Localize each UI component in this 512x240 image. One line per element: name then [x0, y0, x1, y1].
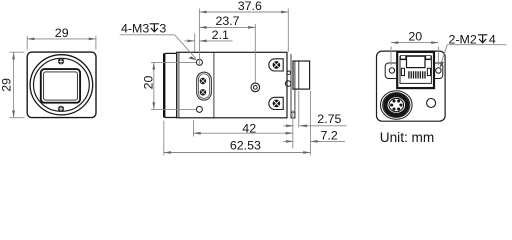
power connector face	[389, 98, 404, 111]
right ear plate	[434, 63, 443, 79]
left M2 hole	[389, 68, 394, 73]
dim 29 top: arrows	[27, 38, 34, 41]
slot screw top	[200, 78, 206, 84]
dim 29 top: dimension line	[27, 38, 96, 40]
dim 29 left: extension lines	[10, 52, 25, 118]
svg-text:29: 29	[0, 78, 14, 92]
rear lug bottom screw	[273, 100, 281, 108]
svg-text:42: 42	[242, 121, 256, 135]
side slot obround outer	[197, 72, 212, 100]
svg-text:20: 20	[141, 76, 155, 90]
power connector thick ring	[385, 95, 407, 115]
side body seam line	[213, 52, 215, 118]
sensor window inner frame	[44, 72, 78, 100]
rear lug top	[269, 59, 283, 71]
front body outline	[27, 52, 96, 118]
dim 23.7 arrows	[199, 26, 206, 29]
RJ45 outer frame	[397, 52, 434, 88]
svg-text:4-M3: 4-M3	[121, 21, 149, 35]
ext line screw center (37.6/23.7/2.1 left)	[198, 9, 200, 66]
svg-text:4: 4	[489, 32, 496, 46]
svg-text:29: 29	[55, 26, 69, 40]
dim 7.2 right arrow + leader	[311, 140, 346, 142]
slot screw bottom	[200, 89, 206, 95]
svg-text:20: 20	[408, 29, 422, 43]
sensor window outer frame	[41, 69, 80, 103]
side body outline	[177, 52, 287, 118]
rear strip screw small	[287, 71, 290, 74]
dim 42 line	[194, 132, 293, 134]
ext line tripod center	[254, 24, 256, 83]
ext line 2.1 left	[194, 34, 196, 52]
tripod mount hole outer	[251, 83, 260, 92]
lens mount outer ring	[30, 55, 93, 115]
dim 62.53 line	[164, 152, 311, 154]
lens mount inner ring	[34, 58, 90, 111]
depth symbol of 2-M2	[478, 35, 488, 43]
M3 hole bottom	[196, 106, 202, 112]
rear small hole	[427, 99, 436, 108]
rear lug bottom	[269, 97, 283, 109]
dim 37.6 line	[199, 11, 288, 13]
M3 hole top	[196, 59, 202, 65]
dim 7.2 left arrow segment	[283, 140, 293, 142]
left ear plate	[385, 63, 397, 79]
ext lines 20 vertical	[151, 62, 196, 109]
2-M2 leader arrow	[439, 61, 444, 69]
rear step line	[294, 61, 296, 112]
svg-text:2.75: 2.75	[317, 112, 341, 126]
rear strip circle	[285, 81, 291, 87]
dim 29 left: dimension line	[13, 52, 15, 118]
RJ45 left notch	[401, 68, 404, 75]
lens flange block	[164, 53, 176, 117]
4-M3 leader arrow	[189, 56, 198, 60]
RJ45 LED window left	[401, 56, 405, 59]
dim 29 left: arrows	[12, 52, 15, 59]
front screw bottom	[58, 106, 64, 112]
dim 37.6 arrows	[199, 11, 206, 14]
dim 2.75 left arrow segment	[283, 125, 293, 127]
dim 20 rear: line	[391, 42, 438, 44]
RJ45 inner frame	[400, 56, 431, 83]
RJ45 pins	[409, 71, 425, 78]
RJ45 side flange line	[298, 61, 300, 89]
RJ45 top dark band	[400, 55, 431, 60]
ext line 2.75 right	[298, 91, 300, 128]
4-M3 leader underline	[120, 34, 175, 36]
dim 42 arrows	[194, 132, 201, 135]
dim 62.53 arrows	[164, 151, 171, 154]
svg-text:23.7: 23.7	[215, 14, 239, 28]
front screw top	[58, 58, 64, 64]
svg-text:2-M2: 2-M2	[449, 32, 477, 46]
rear body outline	[377, 51, 446, 121]
side slot obround inner	[198, 74, 209, 99]
dim 2.1 line right segment	[199, 40, 232, 42]
power connector pins	[390, 99, 402, 110]
ext line 42/62.53 left	[193, 120, 195, 137]
4-M3 leader diagonal	[175, 35, 196, 59]
rear lug top screw	[273, 61, 281, 69]
dim 20 rear: arrows	[391, 41, 398, 44]
depth symbol of 4-M3	[150, 24, 160, 32]
dim 2.1 line left segment	[185, 40, 195, 42]
2-M2 leader diagonal	[440, 45, 447, 67]
rear panel line	[290, 54, 292, 116]
svg-text:2.1: 2.1	[212, 28, 229, 42]
dim 20 rear: ext lines	[391, 47, 438, 66]
dim 2.75 right arrow + leader	[300, 125, 347, 127]
dim 23.7 line	[199, 26, 255, 28]
RJ45 LED window right	[426, 56, 430, 59]
RJ45 side profile block	[293, 61, 310, 89]
svg-text:7.2: 7.2	[321, 129, 338, 143]
svg-text:Unit: mm: Unit: mm	[380, 130, 434, 145]
right M2 hole	[436, 68, 441, 73]
svg-text:37.6: 37.6	[238, 0, 262, 13]
2-M2 leader underline	[447, 44, 506, 46]
dim 20 arrows	[152, 62, 155, 69]
lens flange thick front edge	[163, 53, 165, 117]
ext line rear edge top	[287, 9, 289, 52]
ext line 42 right / 2.75 7.2 shared	[292, 110, 294, 149]
dim 20 line vertical	[153, 62, 155, 109]
RJ45 central plug block	[407, 56, 426, 67]
rear bottom foot	[291, 112, 295, 118]
svg-text:62.53: 62.53	[230, 138, 261, 152]
ext line 7.2/62.53 right	[309, 91, 311, 156]
power connector ring 2	[383, 93, 410, 118]
tripod mount hole inner	[253, 86, 257, 90]
power connector outer ring	[381, 91, 413, 120]
svg-text:3: 3	[159, 21, 166, 35]
dim 29 top: extension lines	[27, 36, 96, 50]
side body front plate line	[178, 52, 180, 118]
RJ45 right notch	[427, 68, 430, 75]
